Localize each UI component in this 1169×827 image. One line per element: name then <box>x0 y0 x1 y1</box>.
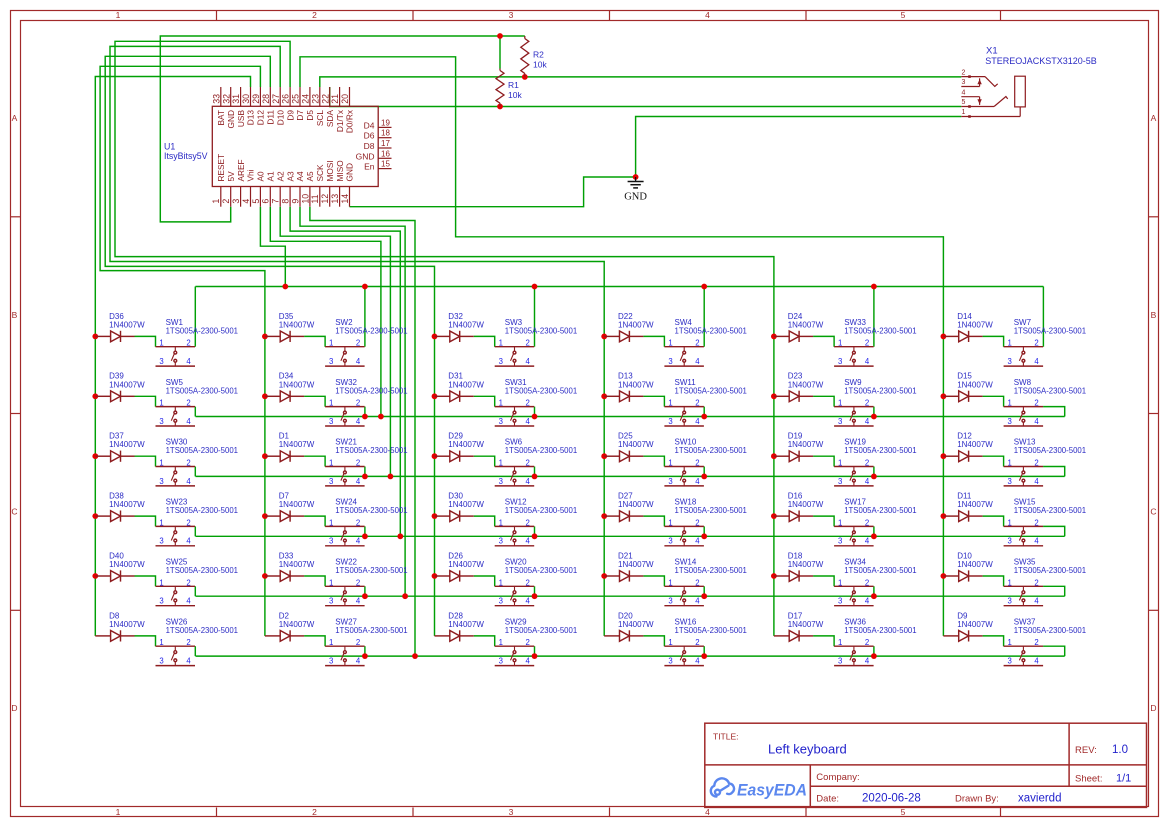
wire D35 to SW2 <box>304 336 325 346</box>
svg-text:3: 3 <box>838 417 842 426</box>
svg-text:5V: 5V <box>226 171 236 182</box>
svg-text:STEREOJACKSTX3120-5B: STEREOJACKSTX3120-5B <box>985 56 1097 66</box>
junction COL3/D26 <box>432 573 438 579</box>
junction COL4/D21 <box>601 573 607 579</box>
svg-text:8: 8 <box>281 199 291 204</box>
svg-text:2: 2 <box>865 459 869 468</box>
svg-text:3: 3 <box>1008 657 1012 666</box>
junction GND node <box>633 174 639 180</box>
svg-text:A: A <box>12 113 18 123</box>
svg-text:2: 2 <box>865 638 869 647</box>
svg-text:1: 1 <box>329 339 333 348</box>
wire ROW4 bus <box>196 535 1065 537</box>
junction ROW1/SW3 <box>532 284 538 290</box>
wire SW18 pin2 to ROW4 bus <box>703 526 705 536</box>
svg-text:1N4007W: 1N4007W <box>957 320 993 329</box>
svg-text:AREF: AREF <box>236 159 246 181</box>
svg-text:2: 2 <box>356 459 360 468</box>
svg-text:2: 2 <box>695 638 699 647</box>
diode D1 <box>265 451 304 462</box>
svg-text:1TS005A-2300-5001: 1TS005A-2300-5001 <box>844 626 916 635</box>
wire SW31 pin2 to ROW2 bus <box>534 407 536 417</box>
diode D24 <box>774 331 813 342</box>
svg-text:1N4007W: 1N4007W <box>279 560 315 569</box>
wire SW19 pin2 to ROW3 bus <box>873 467 875 477</box>
svg-text:1N4007W: 1N4007W <box>788 500 824 509</box>
svg-text:1TS005A-2300-5001: 1TS005A-2300-5001 <box>675 566 747 575</box>
junction COL5/D19 <box>771 453 777 459</box>
wire D25 to SW10 <box>643 456 664 466</box>
svg-text:2: 2 <box>356 638 360 647</box>
svg-text:1TS005A-2300-5001: 1TS005A-2300-5001 <box>166 626 238 635</box>
svg-text:1TS005A-2300-5001: 1TS005A-2300-5001 <box>335 386 407 395</box>
junction COL2/D7 <box>262 513 268 519</box>
svg-text:3: 3 <box>329 417 333 426</box>
svg-text:1: 1 <box>1008 399 1012 408</box>
svg-text:D10: D10 <box>275 110 285 126</box>
svg-text:1N4007W: 1N4007W <box>448 440 484 449</box>
svg-text:3: 3 <box>668 357 672 366</box>
svg-text:32: 32 <box>221 94 231 104</box>
svg-text:D8: D8 <box>364 141 375 151</box>
wire ROW2 bus right hook to col6 switch <box>1043 407 1065 417</box>
wire D34 to SW32 <box>304 396 325 406</box>
wire SW34 pin2 to ROW5 bus <box>873 586 875 596</box>
svg-text:3: 3 <box>159 477 163 486</box>
junction COL2/D35 <box>262 334 268 340</box>
junction ROW6/SW36 <box>871 653 877 659</box>
svg-text:3: 3 <box>329 657 333 666</box>
svg-text:1: 1 <box>668 638 672 647</box>
svg-text:4: 4 <box>695 597 700 606</box>
wire SW25 pin2 to ROW5 bus <box>194 586 196 596</box>
svg-text:3: 3 <box>159 657 163 666</box>
wire D24 to SW33 <box>813 336 834 346</box>
svg-text:1TS005A-2300-5001: 1TS005A-2300-5001 <box>335 446 407 455</box>
wire D14 to SW7 <box>983 336 1004 346</box>
svg-text:2: 2 <box>186 578 190 587</box>
junction COL1/D37 <box>92 453 98 459</box>
switch SW30 <box>156 467 196 486</box>
svg-text:10: 10 <box>300 194 310 204</box>
svg-text:4: 4 <box>1034 357 1039 366</box>
svg-text:1: 1 <box>329 578 333 587</box>
svg-text:1N4007W: 1N4007W <box>448 620 484 629</box>
wire D39 to SW5 <box>135 396 156 406</box>
svg-text:A5: A5 <box>305 171 315 182</box>
wire net ROW5 feed (U1 pin9 A4) <box>300 207 405 597</box>
svg-text:1N4007W: 1N4007W <box>788 380 824 389</box>
svg-text:2: 2 <box>186 638 190 647</box>
wire D32 to SW3 <box>474 336 495 346</box>
svg-text:A2: A2 <box>275 171 285 182</box>
diode D33 <box>265 570 304 581</box>
svg-text:BAT: BAT <box>216 110 226 126</box>
svg-text:1N4007W: 1N4007W <box>618 320 654 329</box>
junction ROW6/SW16 <box>701 653 707 659</box>
svg-text:4: 4 <box>526 477 531 486</box>
svg-text:23: 23 <box>310 94 320 104</box>
svg-text:1: 1 <box>1008 339 1012 348</box>
wire SW3 pin2 to ROW1 bus <box>534 287 536 347</box>
diode D12 <box>943 451 982 462</box>
svg-text:1TS005A-2300-5001: 1TS005A-2300-5001 <box>166 566 238 575</box>
wire SW24 pin2 to ROW4 bus <box>364 526 366 536</box>
IC U1 ItsyBitsy5V body <box>212 106 378 186</box>
U1 top pin leads <box>221 87 350 106</box>
svg-text:1TS005A-2300-5001: 1TS005A-2300-5001 <box>844 566 916 575</box>
diode D7 <box>265 511 304 522</box>
svg-text:1N4007W: 1N4007W <box>279 440 315 449</box>
svg-text:1N4007W: 1N4007W <box>618 440 654 449</box>
svg-text:En: En <box>364 162 375 172</box>
junction ROW5/SW34 <box>871 593 877 599</box>
diode D25 <box>604 451 643 462</box>
svg-text:1TS005A-2300-5001: 1TS005A-2300-5001 <box>335 506 407 515</box>
svg-text:USB: USB <box>236 110 246 128</box>
svg-text:3: 3 <box>1008 357 1012 366</box>
svg-text:1: 1 <box>668 339 672 348</box>
svg-text:D: D <box>11 703 17 713</box>
svg-text:3: 3 <box>838 597 842 606</box>
svg-text:4: 4 <box>695 657 700 666</box>
svg-text:10k: 10k <box>508 90 522 100</box>
svg-text:19: 19 <box>381 118 390 127</box>
svg-text:10k: 10k <box>533 60 547 70</box>
junction ROW3 feed <box>388 474 394 480</box>
diode D39 <box>95 391 134 402</box>
wire D29 to SW6 <box>474 456 495 466</box>
junction COL3/D31 <box>432 393 438 399</box>
svg-text:1N4007W: 1N4007W <box>788 320 824 329</box>
wire SW1 pin2 to ROW1 bus <box>194 287 196 347</box>
svg-text:1N4007W: 1N4007W <box>109 380 145 389</box>
svg-text:2: 2 <box>356 518 360 527</box>
junction COL6/D11 <box>941 513 947 519</box>
svg-text:5: 5 <box>901 807 906 817</box>
wire net COL3 (U1 pin28 D11 to column 3 bus) <box>105 56 434 636</box>
junction COL5/D16 <box>771 513 777 519</box>
wire D38 to SW23 <box>135 516 156 526</box>
diode D10 <box>943 570 982 581</box>
svg-text:1/1: 1/1 <box>1116 773 1131 785</box>
diode D23 <box>774 391 813 402</box>
svg-text:2: 2 <box>356 399 360 408</box>
svg-text:1: 1 <box>838 459 842 468</box>
svg-text:GND: GND <box>624 192 647 203</box>
svg-text:4: 4 <box>356 657 361 666</box>
svg-text:2: 2 <box>1034 578 1038 587</box>
svg-text:1N4007W: 1N4007W <box>957 440 993 449</box>
svg-text:1N4007W: 1N4007W <box>448 380 484 389</box>
svg-text:GND: GND <box>356 151 375 161</box>
svg-text:2: 2 <box>1034 638 1038 647</box>
wire ROW3 bus <box>196 475 1065 477</box>
svg-text:20: 20 <box>340 94 350 104</box>
svg-text:11: 11 <box>310 194 320 203</box>
diode D20 <box>604 630 643 641</box>
svg-text:25: 25 <box>291 94 301 104</box>
svg-text:24: 24 <box>301 94 311 104</box>
svg-text:Drawn By:: Drawn By: <box>955 794 999 805</box>
junction ROW1/SW2 <box>362 284 368 290</box>
junction ROW2 feed <box>378 414 384 420</box>
diode D13 <box>604 391 643 402</box>
diode D36 <box>95 331 134 342</box>
diode D26 <box>435 570 474 581</box>
diode D28 <box>435 630 474 641</box>
junction ROW1/SW33 <box>871 284 877 290</box>
diode D2 <box>265 630 304 641</box>
svg-text:3: 3 <box>668 657 672 666</box>
svg-text:1: 1 <box>499 459 503 468</box>
svg-text:D5: D5 <box>305 110 315 121</box>
svg-text:xavierdd: xavierdd <box>1018 793 1061 805</box>
switch SW21 <box>325 467 365 486</box>
svg-text:1: 1 <box>838 339 842 348</box>
svg-text:1N4007W: 1N4007W <box>109 500 145 509</box>
svg-text:GND: GND <box>345 163 355 181</box>
wire net ROW4 feed (U1 pin8 A3) <box>290 207 400 537</box>
svg-text:18: 18 <box>381 129 390 138</box>
junction ROW1/SW4 <box>701 284 707 290</box>
svg-text:28: 28 <box>261 94 271 104</box>
svg-text:1N4007W: 1N4007W <box>279 320 315 329</box>
svg-text:3: 3 <box>1008 477 1012 486</box>
svg-text:1TS005A-2300-5001: 1TS005A-2300-5001 <box>505 326 577 335</box>
svg-text:4: 4 <box>356 537 361 546</box>
wire D30 to SW12 <box>474 516 495 526</box>
diode D31 <box>435 391 474 402</box>
svg-text:4: 4 <box>526 357 531 366</box>
svg-text:1TS005A-2300-5001: 1TS005A-2300-5001 <box>335 326 407 335</box>
svg-text:2: 2 <box>865 578 869 587</box>
junction ROW6/SW27 <box>362 653 368 659</box>
svg-text:3: 3 <box>668 417 672 426</box>
wire net COL5 (U1 pin26 D9 to column 5 bus) <box>115 41 774 636</box>
wire D40 to SW25 <box>135 576 156 586</box>
wire SW6 pin2 to ROW3 bus <box>534 467 536 477</box>
wire SW33 pin2 to ROW1 bus <box>873 287 875 347</box>
junction ROW3/SW19 <box>871 474 877 480</box>
svg-text:3: 3 <box>1008 597 1012 606</box>
wire SW21 pin2 to ROW3 bus <box>364 467 366 477</box>
junction ROW3/SW21 <box>362 474 368 480</box>
svg-text:17: 17 <box>381 139 390 148</box>
diode D35 <box>265 331 304 342</box>
svg-text:A4: A4 <box>295 171 305 182</box>
switch SW22 <box>325 586 365 605</box>
svg-text:3: 3 <box>838 357 842 366</box>
junction ROW3/SW6 <box>532 474 538 480</box>
svg-text:1: 1 <box>1008 578 1012 587</box>
svg-text:3: 3 <box>509 10 514 20</box>
wire net ROW2 feed (U1 pin6 A1) <box>270 207 381 417</box>
switch SW24 <box>325 526 365 545</box>
svg-text:SDA: SDA <box>325 110 335 128</box>
U1 bottom pin leads <box>221 187 350 207</box>
svg-text:1: 1 <box>499 399 503 408</box>
wire SW26 pin2 to ROW6 bus <box>194 646 196 656</box>
svg-text:30: 30 <box>241 94 251 104</box>
svg-text:2: 2 <box>695 399 699 408</box>
svg-text:1: 1 <box>499 578 503 587</box>
svg-text:1TS005A-2300-5001: 1TS005A-2300-5001 <box>1014 566 1086 575</box>
svg-text:2: 2 <box>865 339 869 348</box>
wire D22 to SW4 <box>643 336 664 346</box>
wire ROW6 bus <box>196 655 1065 657</box>
svg-text:1: 1 <box>499 339 503 348</box>
svg-text:3: 3 <box>1008 537 1012 546</box>
switch SW4 <box>664 347 704 366</box>
svg-text:1: 1 <box>1008 459 1012 468</box>
svg-text:2: 2 <box>526 638 530 647</box>
switch SW33 <box>834 347 874 366</box>
svg-text:1: 1 <box>159 399 163 408</box>
svg-text:D11: D11 <box>266 110 276 125</box>
svg-text:1TS005A-2300-5001: 1TS005A-2300-5001 <box>844 506 916 515</box>
svg-text:3: 3 <box>329 357 333 366</box>
junction ROW4/SW24 <box>362 533 368 539</box>
wire D18 to SW34 <box>813 576 834 586</box>
svg-text:Date:: Date: <box>816 794 839 805</box>
svg-text:3: 3 <box>668 597 672 606</box>
switch SW17 <box>834 526 874 545</box>
svg-text:1TS005A-2300-5001: 1TS005A-2300-5001 <box>166 506 238 515</box>
wire SW27 pin2 to ROW6 bus <box>364 646 366 656</box>
svg-text:1TS005A-2300-5001: 1TS005A-2300-5001 <box>166 446 238 455</box>
wire ROW4 bus right hook to col6 switch <box>1043 526 1065 536</box>
wire D36 to SW1 <box>135 336 156 346</box>
wire SW14 pin2 to ROW5 bus <box>703 586 705 596</box>
diode D29 <box>435 451 474 462</box>
junction ROW5 feed <box>402 593 408 599</box>
diode D37 <box>95 451 134 462</box>
svg-text:2: 2 <box>312 807 317 817</box>
diode D19 <box>774 451 813 462</box>
svg-text:D13: D13 <box>246 110 256 126</box>
ground symbol GND <box>628 177 644 188</box>
svg-text:1N4007W: 1N4007W <box>109 560 145 569</box>
svg-text:4: 4 <box>695 417 700 426</box>
wire D12 to SW13 <box>983 456 1004 466</box>
svg-text:27: 27 <box>271 94 281 104</box>
svg-text:1TS005A-2300-5001: 1TS005A-2300-5001 <box>505 446 577 455</box>
wire SW23 pin2 to ROW4 bus <box>194 526 196 536</box>
svg-text:2: 2 <box>526 459 530 468</box>
switch SW25 <box>156 586 196 605</box>
junction ROW4/SW18 <box>701 533 707 539</box>
junction ROW3/SW10 <box>701 474 707 480</box>
wire ROW6 bus right hook to col6 switch <box>1043 646 1065 656</box>
diode D38 <box>95 511 134 522</box>
junction ROW5/SW14 <box>701 593 707 599</box>
svg-text:31: 31 <box>231 94 241 104</box>
wire D2 to SW27 <box>304 636 325 646</box>
svg-text:SCK: SCK <box>315 164 325 182</box>
svg-text:1TS005A-2300-5001: 1TS005A-2300-5001 <box>675 446 747 455</box>
svg-text:3: 3 <box>499 597 503 606</box>
svg-text:2: 2 <box>526 339 530 348</box>
connector X1 pin dots <box>968 75 971 78</box>
svg-text:5: 5 <box>962 99 966 106</box>
switch SW6 <box>495 467 535 486</box>
svg-text:B: B <box>1151 310 1157 320</box>
svg-text:D0/Rx: D0/Rx <box>345 109 355 133</box>
svg-text:1N4007W: 1N4007W <box>109 320 145 329</box>
svg-text:15: 15 <box>381 160 390 169</box>
junction ROW4 feed <box>397 533 403 539</box>
svg-text:12: 12 <box>320 194 330 204</box>
junction ROW4/SW17 <box>871 533 877 539</box>
junction COL5/D24 <box>771 334 777 340</box>
junction COL3/D30 <box>432 513 438 519</box>
switch SW1 <box>156 347 196 366</box>
svg-text:4: 4 <box>705 807 710 817</box>
svg-text:1: 1 <box>329 459 333 468</box>
svg-text:4: 4 <box>186 417 191 426</box>
svg-text:1: 1 <box>116 10 121 20</box>
wire SW10 pin2 to ROW3 bus <box>703 467 705 477</box>
wire ROW5 bus right hook to col6 switch <box>1043 586 1065 596</box>
svg-text:1TS005A-2300-5001: 1TS005A-2300-5001 <box>1014 506 1086 515</box>
wire SW9 pin2 to ROW2 bus <box>873 407 875 417</box>
wire D1 to SW21 <box>304 456 325 466</box>
svg-text:ItsyBitsy5V: ItsyBitsy5V <box>164 151 208 161</box>
wire SW29 pin2 to ROW6 bus <box>534 646 536 656</box>
wire D31 to SW31 <box>474 396 495 406</box>
diode D16 <box>774 511 813 522</box>
svg-text:1: 1 <box>499 518 503 527</box>
svg-text:1: 1 <box>159 459 163 468</box>
svg-text:D4: D4 <box>364 120 375 130</box>
svg-text:C: C <box>11 507 17 517</box>
junction COL6/D14 <box>941 334 947 340</box>
svg-text:1TS005A-2300-5001: 1TS005A-2300-5001 <box>166 386 238 395</box>
svg-text:4: 4 <box>186 597 191 606</box>
svg-text:1N4007W: 1N4007W <box>957 560 993 569</box>
svg-text:1N4007W: 1N4007W <box>618 560 654 569</box>
wire D27 to SW18 <box>643 516 664 526</box>
diode D40 <box>95 570 134 581</box>
svg-text:4: 4 <box>526 417 531 426</box>
svg-text:REV:: REV: <box>1075 745 1097 756</box>
wire net COL2 (U1 pin29 D12 to column 2 bus) <box>100 66 265 636</box>
svg-text:3: 3 <box>231 199 241 204</box>
title block frame <box>705 723 1147 807</box>
svg-text:2: 2 <box>865 518 869 527</box>
diode D27 <box>604 511 643 522</box>
junction ROW2/SW9 <box>871 414 877 420</box>
svg-text:3: 3 <box>838 477 842 486</box>
diode D18 <box>774 570 813 581</box>
switch SW16 <box>664 646 704 665</box>
svg-text:1N4007W: 1N4007W <box>618 620 654 629</box>
svg-text:3: 3 <box>509 807 514 817</box>
svg-text:9: 9 <box>290 199 300 204</box>
switch SW11 <box>664 407 704 426</box>
svg-text:4: 4 <box>356 597 361 606</box>
svg-text:4: 4 <box>865 477 870 486</box>
svg-text:26: 26 <box>281 94 291 104</box>
switch SW34 <box>834 586 874 605</box>
switch SW20 <box>495 586 535 605</box>
wire SW7 pin2 to ROW1 bus <box>1042 287 1044 347</box>
switch SW3 <box>495 347 535 366</box>
wire GND to X1 pin1 <box>636 117 962 178</box>
junction ROW4/SW12 <box>532 533 538 539</box>
svg-text:D: D <box>1150 703 1156 713</box>
